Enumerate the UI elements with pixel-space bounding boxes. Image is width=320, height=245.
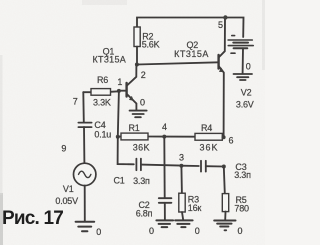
wire node1 branch down to C1 rail xyxy=(118,137,134,165)
wire C1 to node 3 xyxy=(141,165,182,166)
wire top rail node 5 xyxy=(137,18,244,38)
wire node 3 to C3 xyxy=(181,165,198,167)
capacitor C4 xyxy=(78,120,111,139)
ground C2 xyxy=(149,220,173,235)
ground R5 xyxy=(214,221,242,236)
wire node 6 down to R5 xyxy=(224,167,225,194)
ground Q1 emitter xyxy=(130,97,147,117)
wire node 1 down to R1 xyxy=(118,91,119,137)
wire node 4 down to C2 xyxy=(163,137,165,198)
wire C4 to V1, node 9 xyxy=(61,127,84,163)
node C3 junction xyxy=(222,165,226,169)
ground V1 xyxy=(76,222,102,237)
wire C3 to node 6 rail xyxy=(206,165,224,167)
transistor Q1 xyxy=(93,47,137,110)
transistor Q2 xyxy=(174,18,225,138)
wire C2 to ground xyxy=(164,203,166,220)
wire node 2 to Q2 base xyxy=(137,62,219,64)
capacitor C2 xyxy=(136,198,172,218)
battery V2 xyxy=(228,36,254,110)
node 2 xyxy=(135,63,146,81)
ground V2 xyxy=(234,74,253,80)
wire R2 to node 2 xyxy=(136,47,138,65)
capacitor C1 xyxy=(114,159,151,186)
node 5 xyxy=(218,15,228,30)
wire node 3 down to R3 xyxy=(180,166,183,194)
wire battery to ground xyxy=(243,48,251,73)
resistor R2 xyxy=(134,27,160,50)
capacitor C3 xyxy=(201,161,251,180)
resistor R5 xyxy=(222,194,249,214)
wire V1 to ground xyxy=(84,186,86,222)
node 4 xyxy=(162,122,167,139)
resistor R3 xyxy=(179,193,202,213)
node R1 left junction xyxy=(116,135,120,139)
ground R3 xyxy=(175,220,200,235)
wire node 7 down to C4 xyxy=(82,92,85,122)
wire R3 to ground xyxy=(182,212,183,220)
node 1 xyxy=(117,77,123,93)
wire R5 to ground xyxy=(224,212,226,220)
resistor R4 xyxy=(164,123,223,152)
node 3 xyxy=(179,153,184,168)
resistor R1 xyxy=(118,123,165,153)
node 6 xyxy=(222,135,234,145)
source V1 xyxy=(55,163,96,206)
resistor R6 xyxy=(73,75,119,107)
